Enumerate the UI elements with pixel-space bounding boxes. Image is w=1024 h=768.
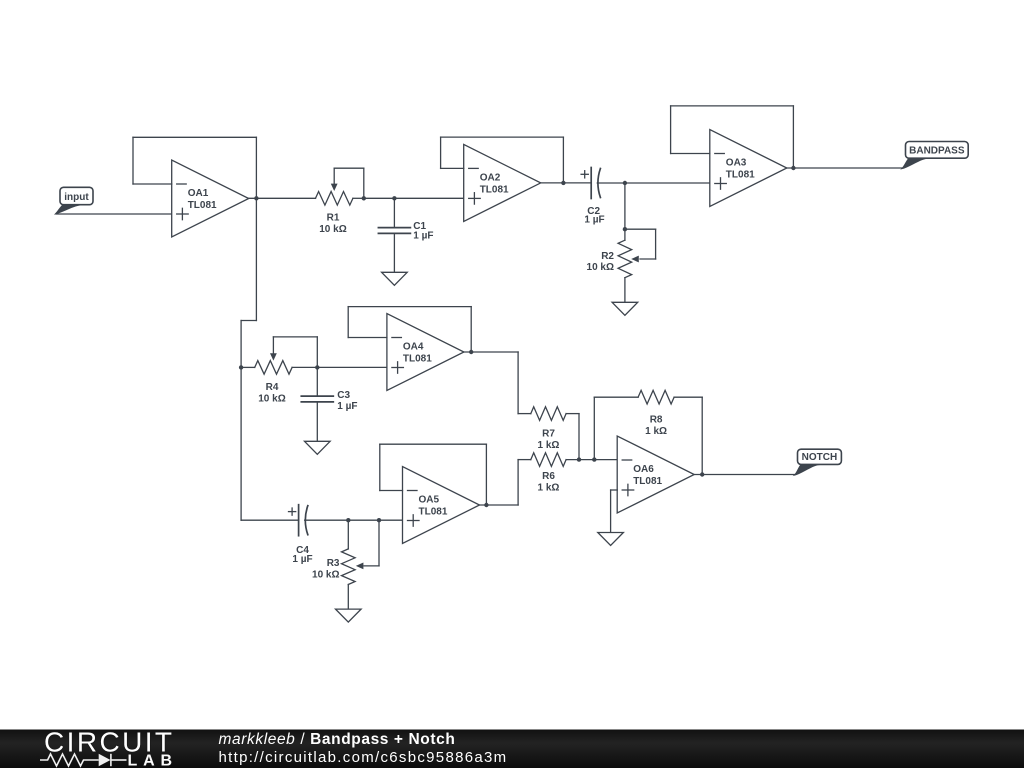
footer bar — [0, 730, 1024, 768]
CircuitLab logo resistor zigzag and diode — [40, 754, 127, 766]
wire OA2 feedback top — [441, 136, 564, 138]
svg-text:R1: R1 — [327, 212, 340, 223]
wire R4 wiper loop top — [273, 336, 317, 338]
svg-text:http://circuitlab.com/c6sbc958: http://circuitlab.com/c6sbc95886a3m — [219, 749, 508, 766]
node R4 left junction — [239, 365, 243, 369]
wire R4 wiper loop right — [316, 337, 318, 368]
svg-text:OA1: OA1 — [188, 188, 209, 199]
svg-text:1 kΩ: 1 kΩ — [645, 426, 667, 437]
wire OA2 inverting input stub — [441, 167, 464, 169]
node OA6 output junction — [700, 472, 704, 476]
wire C2 to R2 node — [597, 182, 625, 184]
wire OA5 feedback right vertical — [485, 444, 487, 505]
resistor R4 — [255, 361, 292, 375]
ground below OA6 — [598, 533, 624, 546]
svg-text:R8: R8 — [650, 414, 663, 425]
wire R4 left lead — [241, 366, 255, 368]
ground below C3 — [305, 441, 331, 454]
wire OA1 feedback right vertical — [255, 137, 257, 198]
wire R2 wiper loop right — [655, 229, 657, 259]
wire R2 top lead — [624, 183, 626, 240]
wire OA3 output to BANDPASS — [787, 167, 903, 169]
wire OA5 inverting input stub — [380, 490, 403, 492]
svg-text:C3: C3 — [337, 390, 350, 401]
wire OA2 output — [541, 182, 592, 184]
wire R1 wiper loop right — [363, 168, 365, 198]
wire R3 bottom lead — [347, 585, 349, 610]
wire R3 top lead — [347, 520, 349, 549]
wire jog down to R4 — [240, 321, 242, 368]
svg-text:TL081: TL081 — [188, 200, 217, 211]
wire OA5 feedback top — [380, 443, 487, 445]
wire R8 left vertical — [593, 397, 595, 459]
wire R2 wiper loop top — [625, 228, 656, 230]
svg-text:10 kΩ: 10 kΩ — [587, 262, 614, 273]
R4 wiper arrow — [272, 337, 274, 354]
wire C1 upper lead — [393, 198, 395, 227]
wire OA1 output down vertical — [255, 198, 257, 320]
svg-text:1 µF: 1 µF — [337, 401, 357, 412]
wire OA4 output down to R7 — [517, 352, 519, 414]
resistor R8 — [638, 390, 674, 404]
wire R7 left lead — [518, 413, 531, 415]
svg-text:R2: R2 — [601, 251, 614, 262]
node OA4 output junction — [469, 350, 473, 354]
wire R4 right lead — [292, 366, 317, 368]
node R2 loop junction — [623, 227, 627, 231]
svg-text:OA6: OA6 — [633, 464, 654, 475]
op-amp OA5 — [403, 467, 480, 544]
resistor R1 — [316, 192, 353, 206]
wire OA2 feedback right vertical — [562, 137, 564, 183]
wire OA4 feedback right vertical — [470, 307, 472, 352]
wire R6 left lead — [518, 459, 531, 461]
capacitor C2 — [590, 168, 592, 199]
op-amp OA6 — [617, 436, 694, 513]
svg-text:LAB: LAB — [128, 753, 173, 768]
R2 wiper arrow — [640, 258, 656, 260]
svg-text:10 kΩ: 10 kΩ — [312, 570, 339, 581]
net label BANDPASS — [902, 142, 968, 169]
wire R2 bottom lead — [624, 278, 626, 303]
wire OA4 inverting input stub — [348, 337, 387, 339]
wire OA3 feedback left vertical — [670, 106, 672, 154]
wire R6 right lead — [566, 459, 617, 461]
ground below R3 — [336, 609, 362, 622]
svg-text:TL081: TL081 — [633, 476, 662, 487]
resistor R7 — [531, 407, 566, 421]
wire C3 lower lead — [316, 402, 318, 441]
svg-text:NOTCH: NOTCH — [802, 452, 838, 463]
svg-text:10 kΩ: 10 kΩ — [258, 394, 285, 405]
svg-text:R4: R4 — [266, 382, 279, 393]
node OA2 output junction — [561, 181, 565, 185]
svg-text:OA3: OA3 — [726, 158, 747, 169]
svg-text:10 kΩ: 10 kΩ — [319, 224, 346, 235]
svg-text:TL081: TL081 — [419, 507, 448, 518]
resistor R3 — [342, 549, 356, 585]
net label input — [56, 187, 93, 213]
svg-text:TL081: TL081 — [480, 184, 509, 195]
wire OA6 output to NOTCH — [694, 474, 795, 476]
wire OA4 feedback top — [348, 306, 471, 308]
wire C2 node to OA3 — [625, 182, 710, 184]
svg-text:R3: R3 — [327, 558, 340, 569]
diode triangle — [99, 754, 111, 766]
wire R3 wiper loop down — [378, 520, 380, 566]
svg-text:markkleeb / Bandpass + Notch: markkleeb / Bandpass + Notch — [219, 731, 456, 748]
wire jog horizontal — [241, 320, 256, 322]
node R8 branch junction — [592, 457, 596, 461]
wire R1 right lead — [353, 197, 364, 199]
svg-text:1 µF: 1 µF — [584, 215, 604, 226]
op-amp OA2 — [464, 144, 541, 221]
wire C4 to OA5 noninverting input — [305, 519, 403, 521]
wire OA4 output — [464, 351, 518, 353]
wire R8 right vertical — [701, 397, 703, 474]
wire to C4 left plate — [241, 519, 299, 521]
wire OA1 feedback left vertical — [132, 137, 134, 184]
wire input to OA1 noninverting input — [56, 213, 172, 215]
wire OA2 feedback left vertical — [440, 137, 442, 168]
wire OA5 output up to R6 — [517, 460, 519, 505]
wire R1 wiper loop top — [334, 167, 364, 169]
capacitor C4 — [298, 505, 300, 536]
node R4 right junction — [315, 365, 319, 369]
wire OA3 feedback right vertical — [792, 106, 794, 168]
svg-text:1 µF: 1 µF — [413, 231, 433, 242]
svg-text:1 kΩ: 1 kΩ — [538, 440, 560, 451]
wire OA1 inverting input stub — [133, 183, 172, 185]
node OA1 output junction — [254, 196, 258, 200]
wire OA5 feedback left vertical — [379, 444, 381, 490]
wire OA6 noninverting down — [610, 490, 612, 533]
node R3 wiper loop junction — [377, 518, 381, 522]
wire OA3 feedback top — [671, 105, 794, 107]
node C2 right junction — [623, 181, 627, 185]
svg-text:input: input — [64, 192, 89, 203]
wire R8 left lead — [594, 396, 638, 398]
wire OA3 inverting input stub — [671, 153, 710, 155]
ground below R2 — [612, 302, 638, 315]
resistor R6 — [531, 453, 566, 467]
svg-text:1 µF: 1 µF — [292, 554, 312, 565]
svg-text:OA2: OA2 — [480, 172, 501, 183]
op-amp OA1 — [172, 160, 249, 237]
op-amp OA4 — [387, 314, 464, 391]
wire OA6 noninverting stub — [611, 489, 618, 491]
node OA5 output junction — [484, 503, 488, 507]
wire R7 right lead — [566, 413, 579, 415]
svg-text:OA4: OA4 — [403, 342, 424, 353]
svg-text:1 kΩ: 1 kΩ — [538, 483, 560, 494]
wire down to C4 row — [240, 367, 242, 520]
wire OA1 output — [249, 197, 316, 199]
node C1 tap junction — [392, 196, 396, 200]
wire R1 to C1 node — [364, 197, 464, 199]
node OA3 output junction — [791, 166, 795, 170]
net label NOTCH — [795, 449, 842, 475]
node C4 R3 junction — [346, 518, 350, 522]
wire OA4 feedback left vertical — [347, 307, 349, 338]
capacitor C1 — [378, 227, 410, 229]
svg-text:TL081: TL081 — [726, 170, 755, 181]
svg-text:BANDPASS: BANDPASS — [909, 146, 965, 157]
C4 plus polarity mark — [289, 511, 296, 513]
svg-text:R6: R6 — [542, 471, 555, 482]
wire R4 to OA4 noninverting input — [317, 366, 387, 368]
node R7 R6 junction — [577, 457, 581, 461]
C2 plus polarity mark — [581, 173, 588, 175]
capacitor C3 — [301, 395, 333, 397]
wire C3 upper lead — [316, 367, 318, 396]
svg-text:TL081: TL081 — [403, 354, 432, 365]
node R1 right junction — [362, 196, 366, 200]
svg-text:OA5: OA5 — [419, 495, 440, 506]
resistor R2 — [618, 240, 632, 278]
wire R3 wiper loop left — [364, 565, 379, 567]
R3 wiper arrow — [356, 563, 364, 570]
wire C1 lower lead — [393, 233, 395, 272]
svg-text:R7: R7 — [542, 429, 555, 440]
op-amp OA3 — [710, 130, 787, 207]
wire R7 down to R6 row — [578, 414, 580, 460]
wire OA5 output — [480, 504, 519, 506]
ground below C1 — [382, 272, 408, 285]
wire R8 right lead — [674, 396, 702, 398]
R1 wiper arrow — [333, 168, 335, 185]
wire OA1 feedback top — [133, 136, 256, 138]
